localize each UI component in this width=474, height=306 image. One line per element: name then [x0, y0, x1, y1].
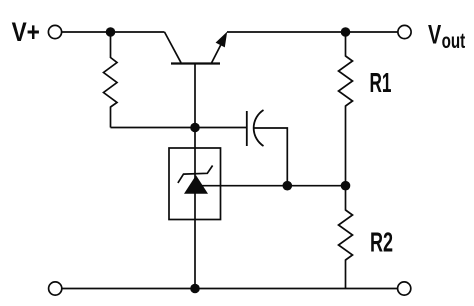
transistor Q1 collector lead	[165, 32, 182, 63]
junction dot node A (V+ / resistor)	[106, 27, 116, 37]
terminal V+	[48, 25, 61, 38]
wire R1 bottom through node D to R2 top	[345, 106, 347, 211]
zener diode D1 cathode bar	[178, 166, 213, 183]
wire top-right rail from emitter arrow to Vout terminal	[227, 31, 398, 33]
zener regulator U1 box	[169, 148, 221, 220]
wire reference from zener to R1-R2 node	[202, 185, 346, 187]
resistor R3 (unlabeled, from V+ node to base node)	[104, 58, 118, 108]
wire top-left rail from V+ terminal to transistor collector bend	[62, 31, 165, 33]
svg-text:V+: V+	[12, 16, 40, 47]
junction dot node Vout rail	[341, 27, 351, 37]
resistor R2	[339, 210, 353, 260]
capacitor C1 left plate	[246, 111, 248, 146]
transistor Q1 emitter lead	[212, 44, 222, 64]
wire R2 bottom to bottom rail	[345, 260, 347, 289]
transistor Q1 base bar	[171, 62, 220, 64]
wire middle horizontal to capacitor left plate	[111, 127, 247, 129]
svg-text:R2: R2	[370, 227, 393, 258]
wire right rail from top node down to R1	[345, 32, 347, 57]
terminal bottom-right	[398, 282, 411, 295]
zener diode D1 anode triangle	[184, 175, 208, 193]
junction dot node D (R1 / R2 divider)	[341, 181, 351, 191]
terminal Vout	[398, 25, 411, 38]
wire from node A down to resistor top	[110, 32, 112, 58]
junction dot bottom rail	[190, 284, 200, 294]
resistor R1	[339, 56, 353, 106]
capacitor C1 right curved plate	[254, 110, 264, 146]
wire capacitor right lead and corner down to node C	[254, 128, 287, 186]
svg-text:R1: R1	[370, 67, 392, 98]
wire bottom rail between ground terminals	[62, 288, 397, 290]
wire base lead vertical through node B and zener box to bottom rail	[194, 64, 196, 289]
terminal bottom-left	[49, 282, 62, 295]
transistor Q1 emitter arrowhead	[216, 32, 228, 48]
wire resistor bottom lead down to middle rail	[110, 107, 112, 128]
junction dot node C (cap / ref wire)	[283, 181, 293, 191]
svg-text:out: out	[442, 29, 466, 53]
junction dot node B (base / resistor / cap)	[190, 123, 200, 133]
svg-text:V: V	[428, 19, 441, 50]
